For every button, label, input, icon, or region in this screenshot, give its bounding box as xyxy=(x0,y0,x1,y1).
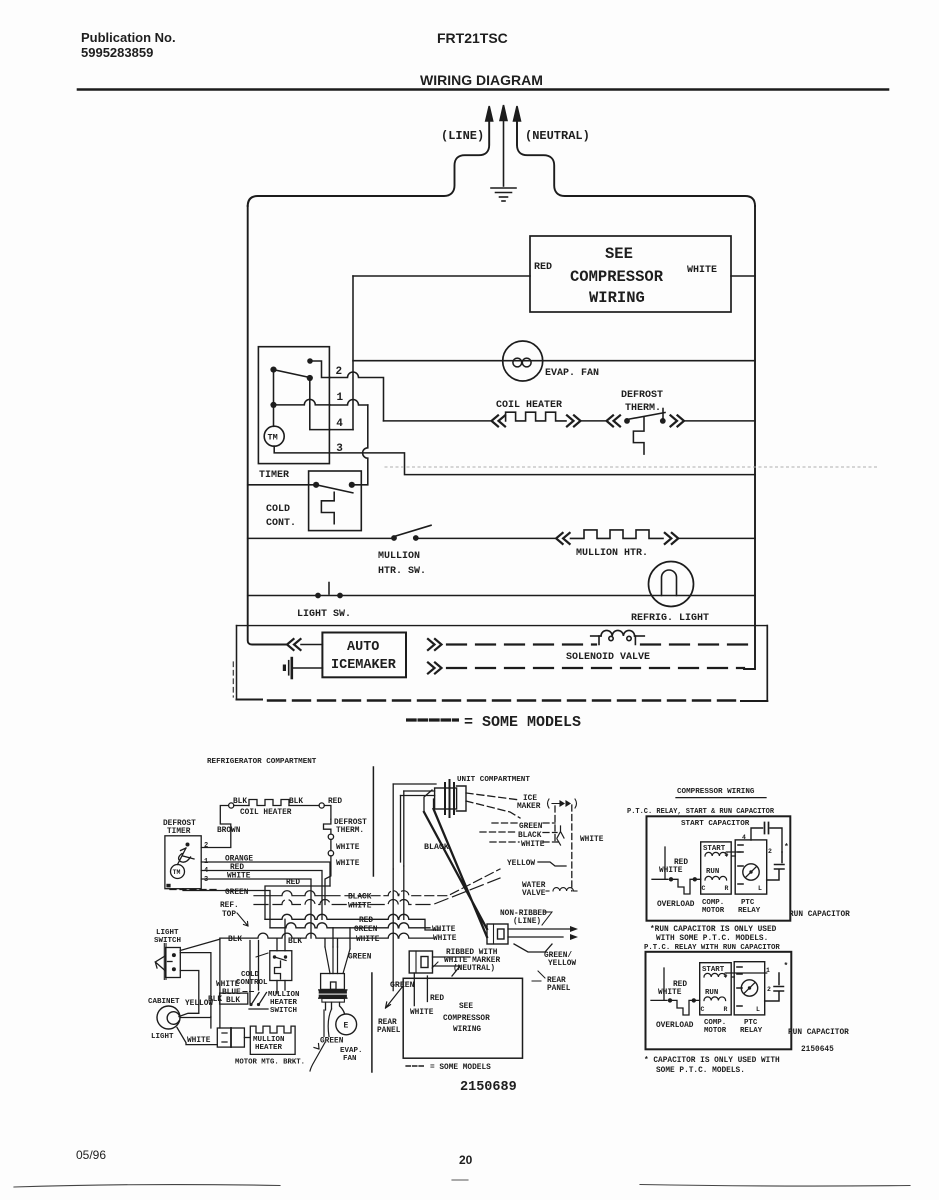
overload dots 1 xyxy=(669,877,697,881)
label WHITE 1 xyxy=(659,867,683,875)
leader arrow cold control xyxy=(256,953,268,957)
label ICE MAKER xyxy=(517,795,541,811)
svg-text:PANEL: PANEL xyxy=(547,985,571,993)
ptc relay pins 2 xyxy=(737,967,742,1006)
chevrons icemaker out bottom xyxy=(428,663,442,674)
evap fan motor EVAP.FAN xyxy=(503,341,543,381)
svg-text:L: L xyxy=(756,1006,760,1013)
start winding coil 1 xyxy=(705,852,727,856)
connector ring right of coil heater xyxy=(319,803,324,808)
label 3 xyxy=(336,443,343,455)
wire line 2 hop over V1 then down to coil row xyxy=(330,372,384,421)
svg-text:MULLION HTR.: MULLION HTR. xyxy=(576,548,648,559)
title underline xyxy=(676,797,766,799)
some-models outer box left edge xyxy=(236,626,238,700)
svg-text:WHITE: WHITE xyxy=(336,844,360,852)
enclosure top-left edge with cord bump xyxy=(248,122,490,206)
svg-text:* CAPACITOR IS ONLY USED WITH: * CAPACITOR IS ONLY USED WITH xyxy=(644,1057,780,1065)
label BLK b xyxy=(288,938,302,946)
svg-text:FRT21TSC: FRT21TSC xyxy=(437,30,508,46)
svg-text:BLK: BLK xyxy=(233,798,247,806)
chevrons mullion right xyxy=(665,533,679,544)
label MULLION HTR. xyxy=(576,548,648,559)
wire red lead down from coil heater xyxy=(324,806,331,820)
label WHITE cabinet xyxy=(187,1037,211,1045)
label WHITE coldctl xyxy=(216,981,240,989)
svg-text:UNIT COMPARTMENT: UNIT COMPARTMENT xyxy=(457,776,530,784)
footnote 2 line a xyxy=(644,1057,780,1065)
svg-text:E: E xyxy=(344,1022,349,1031)
light switch actuator tick xyxy=(328,583,330,595)
bus row WHITE xyxy=(254,878,500,905)
wire cabinet light right lead xyxy=(180,1017,211,1019)
overload element 1 xyxy=(673,879,701,894)
small legend text xyxy=(430,1064,491,1072)
svg-text:3: 3 xyxy=(336,443,343,455)
svg-text:GREEN: GREEN xyxy=(348,954,372,962)
label MULLION HEATER xyxy=(253,1036,285,1052)
label SEE COMPRESSOR WIRING xyxy=(570,245,664,307)
label RED jumper xyxy=(286,879,300,887)
svg-text:ORANGE: ORANGE xyxy=(225,856,253,864)
svg-text:= SOME MODELS: = SOME MODELS xyxy=(464,714,581,731)
timer motor TM xyxy=(264,426,284,446)
label WHITE lower xyxy=(410,1009,434,1017)
svg-text:GREEN: GREEN xyxy=(390,981,415,990)
chevrons defrost left xyxy=(607,415,621,426)
chevrons defrost right xyxy=(671,415,685,426)
label AUTO xyxy=(347,640,379,655)
svg-text:WIRING: WIRING xyxy=(453,1026,481,1034)
mullion heater switch dots xyxy=(391,535,419,541)
svg-text:WITH SOME P.T.C. MODELS.: WITH SOME P.T.C. MODELS. xyxy=(656,935,768,943)
label START CAPACITOR xyxy=(681,820,750,828)
label REFRIGERATOR COMPARTMENT xyxy=(207,758,317,766)
label WHITE xyxy=(227,873,251,881)
dashed white lead xyxy=(490,841,560,843)
wire white lead down to bus xyxy=(325,856,331,905)
footer date 05/96 xyxy=(76,1148,106,1162)
svg-text:THERM.: THERM. xyxy=(625,403,661,414)
wire defrost to right edge xyxy=(685,420,756,422)
label WHITE 2 xyxy=(658,989,682,997)
svg-text:RED: RED xyxy=(286,879,300,887)
enclosure right edge wire xyxy=(744,206,755,669)
svg-text:WHITE: WHITE xyxy=(521,841,545,849)
footnote 2 line b xyxy=(656,1067,745,1075)
label NON-RIBBED (LINE) xyxy=(500,910,547,926)
leader arrow REF.TOP xyxy=(237,913,248,926)
label RED 1 xyxy=(674,859,688,867)
label EVAP. FAN xyxy=(340,1047,363,1063)
wire light switch to blk bus xyxy=(180,939,220,950)
label LIGHT SWITCH xyxy=(154,929,181,945)
light switch lever xyxy=(155,956,165,971)
light switch dots xyxy=(315,593,343,599)
wire timer white lead xyxy=(201,879,311,938)
svg-text:= SOME MODELS: = SOME MODELS xyxy=(430,1064,491,1072)
label COLD xyxy=(266,504,290,515)
label BLK left xyxy=(233,798,247,806)
svg-text:WHITE: WHITE xyxy=(187,1037,211,1045)
svg-text:C: C xyxy=(701,1006,705,1013)
motor terminals C R 2 xyxy=(701,972,728,1013)
svg-text:PTC: PTC xyxy=(744,1019,758,1027)
svg-text:RED: RED xyxy=(230,864,244,872)
svg-text:R: R xyxy=(724,1006,728,1013)
svg-text:MULLION: MULLION xyxy=(268,991,300,999)
wire cabinet light white lead xyxy=(177,1028,217,1045)
footnote 1 line a xyxy=(650,926,777,934)
label HTR. SW. xyxy=(378,566,426,577)
label (LINE) xyxy=(441,129,484,143)
icemaker plug connector xyxy=(283,658,323,678)
dashed leads connector to icemaker xyxy=(466,793,520,818)
svg-text:WHITE: WHITE xyxy=(687,265,717,276)
solenoid valve coil xyxy=(591,630,645,644)
label GREEN im xyxy=(519,823,543,831)
junction arrows xyxy=(557,826,564,845)
svg-text:REAR: REAR xyxy=(547,977,566,985)
part number 2150645 xyxy=(801,1046,834,1054)
ptc box 2 xyxy=(646,952,792,1050)
label P.T.C. RELAY WITH RUN CAPACITOR xyxy=(644,944,780,952)
label UNIT COMPARTMENT xyxy=(457,776,530,784)
svg-text:ICE: ICE xyxy=(523,795,537,803)
header: publication number text xyxy=(81,30,176,60)
wire line 4 to V1 junction xyxy=(330,429,353,431)
svg-text:RED: RED xyxy=(534,262,552,273)
label RUN CAPACITOR 1 xyxy=(789,911,850,919)
svg-text:RUN CAPACITOR: RUN CAPACITOR xyxy=(789,911,850,919)
overload dots 2 xyxy=(668,998,696,1002)
label START 2 xyxy=(702,966,725,974)
wire light switch row xyxy=(248,595,755,597)
mullion heater switch blades xyxy=(249,993,268,1010)
label WHITE2 xyxy=(356,936,380,944)
wires ribbed plug leads xyxy=(433,957,471,976)
svg-text:REFRIG. LIGHT: REFRIG. LIGHT xyxy=(631,613,709,624)
ribbed plug xyxy=(409,951,432,973)
label WHITE upper xyxy=(336,844,360,852)
label LIGHT SW. xyxy=(297,609,351,620)
svg-text:Publication No.: Publication No. xyxy=(81,30,176,45)
wires into unit connector from left xyxy=(393,784,436,796)
label PTC RELAY 2 xyxy=(740,1019,763,1035)
svg-text:TM: TM xyxy=(268,433,278,443)
svg-text:COLD: COLD xyxy=(266,504,290,515)
connector ring white lower xyxy=(328,851,333,856)
terminal marks 1 xyxy=(742,834,772,892)
wires white red into box xyxy=(414,973,427,1006)
wire dashed icemaker top row xyxy=(447,643,596,645)
label WHITE im xyxy=(521,841,545,849)
svg-text:THERM.: THERM. xyxy=(336,827,364,835)
dashed vertical icemaker right xyxy=(571,805,573,891)
label REAR PANEL right xyxy=(547,977,571,993)
svg-text:TM: TM xyxy=(173,869,181,876)
svg-text:2: 2 xyxy=(768,848,772,855)
label TIMER xyxy=(259,470,289,481)
wire line 1 hop over V1 xyxy=(330,400,368,405)
legend = SOME MODELS xyxy=(464,714,581,731)
title COMPRESSOR WIRING xyxy=(677,788,755,796)
label BLUE with dash xyxy=(222,989,241,997)
label SEE COMPRESSOR WIRING lower xyxy=(443,1003,490,1034)
power cord prong (NEUTRAL) xyxy=(514,106,521,145)
comp motor box 2 xyxy=(700,963,732,1015)
svg-text:WHITE: WHITE xyxy=(356,936,380,944)
wire C down to line 4 xyxy=(310,378,330,430)
footnote asterisk 1 xyxy=(784,843,789,852)
label BLACK im xyxy=(518,832,542,840)
label CABINET xyxy=(148,998,180,1006)
svg-text:WHITE: WHITE xyxy=(659,867,683,875)
label REF. TOP xyxy=(220,902,239,919)
chevrons icemaker feed left xyxy=(287,639,301,650)
wire mullion row middle xyxy=(416,537,555,539)
some-models outer box bottom dashed xyxy=(237,699,263,701)
ptc relay box 2 xyxy=(734,962,765,1015)
svg-text:RELAY: RELAY xyxy=(740,1027,763,1035)
start capacitor symbol xyxy=(751,823,782,853)
mullion heater block xyxy=(250,1026,295,1054)
svg-text:WHITE: WHITE xyxy=(336,860,360,868)
label GREEN xyxy=(225,889,249,897)
label COMP. MOTOR 2 xyxy=(704,1019,727,1035)
svg-text:(LINE): (LINE) xyxy=(513,918,541,926)
unit connector plug xyxy=(435,780,466,817)
label BROWN xyxy=(217,827,241,835)
dashed black lead xyxy=(480,831,557,834)
svg-text:MOTOR MTG. BRKT.: MOTOR MTG. BRKT. xyxy=(235,1059,305,1067)
svg-text:YELLOW: YELLOW xyxy=(507,860,535,868)
fan connector funnel xyxy=(325,947,350,974)
label CONT. xyxy=(266,518,296,529)
compressor note box U-COMP xyxy=(530,236,731,312)
bus row WHITE2 xyxy=(220,933,433,938)
compartment divider lower xyxy=(371,973,373,1072)
svg-text:4: 4 xyxy=(742,834,746,841)
label BLK a xyxy=(228,936,242,944)
svg-text:1: 1 xyxy=(337,392,344,404)
svg-text:CABINET: CABINET xyxy=(148,998,180,1006)
wire bus drop to fan connector xyxy=(325,928,350,949)
svg-text:BROWN: BROWN xyxy=(217,827,241,835)
see compressor wiring box (lower) xyxy=(403,978,522,1058)
svg-text:GREEN: GREEN xyxy=(519,823,543,831)
label WHITE x2 right xyxy=(432,926,457,943)
start winding coil 2 xyxy=(704,973,726,977)
svg-text:RELAY: RELAY xyxy=(738,907,761,915)
svg-text:MOTOR: MOTOR xyxy=(704,1027,727,1035)
label OVERLOAD 1 xyxy=(657,901,695,909)
ptc disc 1 xyxy=(743,864,759,880)
svg-text:START: START xyxy=(703,845,726,853)
svg-text:ICEMAKER: ICEMAKER xyxy=(331,658,397,673)
dashed green lead xyxy=(492,822,555,824)
chevrons icemaker out top xyxy=(428,639,442,650)
svg-text:4: 4 xyxy=(336,418,343,430)
wire start to relay 2 xyxy=(726,973,767,977)
svg-text:CONT.: CONT. xyxy=(266,518,296,529)
header: model number xyxy=(437,30,508,46)
wire brown: timer line2 up to coil heater xyxy=(201,806,231,848)
svg-text:DEFROST: DEFROST xyxy=(334,819,367,827)
chevrons coil heater left xyxy=(492,415,506,426)
svg-text:DEFROST: DEFROST xyxy=(621,390,663,401)
svg-text:RED: RED xyxy=(673,981,687,989)
wire white feed 1 xyxy=(652,847,668,879)
timer blade B-C xyxy=(274,370,310,378)
wire dashed icemaker bottom row xyxy=(447,667,744,669)
svg-text:(NEUTRAL): (NEUTRAL) xyxy=(525,129,590,143)
wire TM bottom to line 3 xyxy=(274,446,755,474)
connector bracket box xyxy=(217,1028,244,1047)
label BLK right xyxy=(289,798,303,806)
timer pivot dot B xyxy=(270,367,276,373)
svg-text:RED: RED xyxy=(674,859,688,867)
mullion heater switch blade xyxy=(394,525,431,536)
defrost timer motor TM xyxy=(171,865,185,879)
small legend dashes xyxy=(406,1065,425,1067)
svg-text:LIGHT: LIGHT xyxy=(156,929,179,937)
enclosure left edge wire xyxy=(248,206,287,645)
svg-text:PTC: PTC xyxy=(741,899,755,907)
svg-text:NON-RIBBED: NON-RIBBED xyxy=(500,910,547,918)
label BLACK cable xyxy=(424,843,449,852)
label MULLION HEATER SWITCH xyxy=(268,991,300,1015)
wire line 1 from D with hop over C leg xyxy=(277,399,331,405)
scan artifact dotted line xyxy=(385,466,878,468)
svg-text:BLK: BLK xyxy=(288,938,302,946)
timer contact dot C xyxy=(307,375,313,381)
label COIL HEATER xyxy=(496,400,562,411)
wire light switch mid lead xyxy=(180,953,211,1017)
wire compressor red lead xyxy=(353,275,530,277)
cold control blade xyxy=(316,485,353,493)
ptc relay pins 1 xyxy=(738,845,743,884)
svg-text:START: START xyxy=(702,966,725,974)
label BLK dark xyxy=(208,996,222,1004)
black supply cable thick diagonals xyxy=(424,809,487,937)
coil heater element (compartment) xyxy=(249,800,289,806)
svg-text:HEATER: HEATER xyxy=(270,999,298,1007)
bus row BLACK xyxy=(254,891,340,896)
svg-text:R: R xyxy=(725,885,729,892)
svg-text:WIRING DIAGRAM: WIRING DIAGRAM xyxy=(420,72,543,88)
svg-text:GREEN: GREEN xyxy=(225,889,249,897)
svg-text:COMPRESSOR WIRING: COMPRESSOR WIRING xyxy=(677,788,755,796)
wire black pair to bus xyxy=(393,866,404,991)
svg-text:TOP: TOP xyxy=(222,911,236,919)
header: title WIRING DIAGRAM xyxy=(420,72,543,88)
svg-text:2: 2 xyxy=(204,842,208,850)
svg-text:MAKER: MAKER xyxy=(517,803,541,811)
svg-text:START CAPACITOR: START CAPACITOR xyxy=(681,820,750,828)
ptc relay box 1 xyxy=(735,840,767,894)
label DEFROST THERM. xyxy=(334,819,367,835)
wire from A to contact line 2 xyxy=(310,361,330,378)
svg-text:BLACK: BLACK xyxy=(518,832,542,840)
svg-text:REF.: REF. xyxy=(220,902,239,910)
label GREEN fan xyxy=(320,1038,344,1046)
wire mullion row left xyxy=(248,537,391,539)
defrost timer box xyxy=(165,836,201,889)
svg-text:1: 1 xyxy=(766,967,770,974)
line cord plug xyxy=(487,924,508,944)
label RED lower xyxy=(430,995,444,1003)
svg-text:WHITE: WHITE xyxy=(658,989,682,997)
mullion heater element xyxy=(571,530,664,539)
wire between white connectors xyxy=(330,840,332,851)
svg-text:WHITE: WHITE xyxy=(432,926,456,934)
label COLD CONTROL xyxy=(236,971,268,987)
cold control box xyxy=(309,471,362,531)
header rule xyxy=(78,88,888,91)
wire B to D to TM xyxy=(273,370,275,427)
label SOLENOID VALVE xyxy=(566,652,650,663)
footnote asterisk 2 xyxy=(784,962,789,971)
evap fan motor circle xyxy=(336,1014,357,1035)
connector ring left of coil heater xyxy=(229,803,234,808)
footnote 1 line b xyxy=(656,935,768,943)
wire connector legs to fan motor xyxy=(326,1002,345,1013)
svg-text:COMP.: COMP. xyxy=(704,1019,726,1027)
label RED xyxy=(359,917,373,925)
svg-text:LIGHT SW.: LIGHT SW. xyxy=(297,609,351,620)
wire drops to cold control xyxy=(277,919,285,993)
wire red jumper to bus xyxy=(265,886,330,919)
svg-text:REAR: REAR xyxy=(378,1019,397,1027)
ground symbol xyxy=(491,188,516,201)
defrost therm blade xyxy=(627,413,665,420)
label RIBBED WITH WHITE MARKER (NEUTRAL) xyxy=(444,949,500,973)
label GREEN dk xyxy=(390,981,415,990)
light switch body xyxy=(164,944,180,980)
svg-text:EVAP.: EVAP. xyxy=(340,1047,363,1055)
svg-text:WHITE MARKER: WHITE MARKER xyxy=(444,957,500,965)
svg-text:HTR. SW.: HTR. SW. xyxy=(378,566,426,577)
svg-text:RIBBED WITH: RIBBED WITH xyxy=(446,949,498,957)
svg-text:MULLION: MULLION xyxy=(253,1036,285,1044)
label COIL HEATER xyxy=(240,809,292,817)
label COMP. MOTOR 1 xyxy=(702,899,725,915)
svg-text:*: * xyxy=(784,962,789,971)
label DEFROST TIMER xyxy=(163,820,196,836)
wire timer red lead xyxy=(201,871,322,920)
rear panel arrow left xyxy=(386,986,404,1008)
wire cable top bends xyxy=(424,790,434,812)
svg-text:MULLION: MULLION xyxy=(378,551,420,562)
non-ribbed leader xyxy=(542,912,552,925)
svg-text:AUTO: AUTO xyxy=(347,640,379,655)
wire mullion row right xyxy=(679,537,755,539)
label YELLOW xyxy=(507,860,535,868)
label PTC RELAY 1 xyxy=(738,899,761,915)
wire white feed 2 xyxy=(651,968,667,1000)
yellow leader xyxy=(538,862,566,866)
chevrons coil heater right xyxy=(567,415,581,426)
timer dot D xyxy=(270,402,276,408)
fan connector lower box xyxy=(322,999,345,1003)
defrost timer corner terminal xyxy=(166,884,170,888)
defrost therm tick xyxy=(662,409,664,420)
run winding coil 1 xyxy=(705,876,727,880)
wire to icemaker box xyxy=(301,644,322,646)
connector ring white upper xyxy=(328,834,333,839)
svg-text:VALVE: VALVE xyxy=(522,890,546,898)
